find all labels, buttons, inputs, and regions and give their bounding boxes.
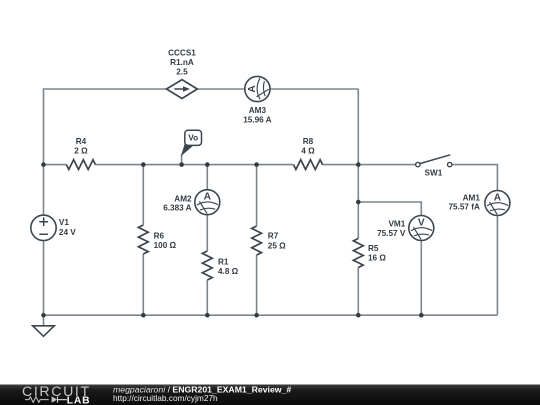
- svg-text:6.383 A: 6.383 A: [163, 204, 191, 213]
- footer logo resistor glyph: [25, 397, 49, 403]
- wire middle rail (R4 to R8): [95, 164, 293, 166]
- wire switch to AM1 top: [452, 165, 498, 191]
- resistor R5: [353, 239, 386, 268]
- svg-text:AM3: AM3: [249, 106, 267, 115]
- resistor R8: [294, 137, 323, 170]
- wire left rail lower (V1 bottom to ground node): [43, 241, 45, 316]
- wire right branch vertical (top rail down to bottom rail, through R5): [357, 89, 359, 315]
- svg-text:R6: R6: [154, 232, 165, 241]
- node VM1 bottom: [419, 313, 424, 318]
- svg-text:R5: R5: [368, 244, 379, 253]
- svg-text:2.5: 2.5: [176, 68, 188, 77]
- svg-text:A: A: [204, 192, 212, 203]
- resistor R4: [66, 137, 95, 170]
- ammeter AM3: [243, 76, 271, 124]
- svg-text:75.57 fA: 75.57 fA: [448, 203, 479, 212]
- svg-text:4.8 Ω: 4.8 Ω: [218, 267, 239, 276]
- resistor R7: [252, 226, 286, 255]
- wire AM2 / R1 branch: [206, 165, 208, 316]
- wire AM1 bottom to bottom rail: [496, 216, 498, 316]
- node R5 top: [356, 162, 361, 167]
- wire R6 branch: [142, 165, 144, 316]
- node VM1 tap: [356, 200, 361, 205]
- svg-text:AM1: AM1: [463, 194, 481, 203]
- node R6 top: [141, 162, 146, 167]
- svg-text:75.57 V: 75.57 V: [377, 229, 406, 238]
- wire Vo tap: [181, 154, 183, 165]
- resistor R1: [202, 251, 238, 280]
- ammeter AM1: [448, 191, 509, 216]
- resistor R6: [138, 225, 176, 254]
- svg-text:4 Ω: 4 Ω: [301, 147, 315, 156]
- node R7 bottom: [254, 313, 259, 318]
- node R6 bottom: [141, 313, 146, 318]
- footer logo diode glyph: [52, 396, 58, 402]
- footer bar: [0, 385, 540, 405]
- svg-text:2 Ω: 2 Ω: [74, 147, 88, 156]
- wire bottom rail: [44, 314, 498, 316]
- node R1 bottom: [205, 313, 210, 318]
- switch SW1: [416, 155, 452, 178]
- wire VM1 branch upper: [358, 202, 421, 216]
- svg-text:15.96 A: 15.96 A: [243, 115, 271, 124]
- svg-text:SW1: SW1: [425, 169, 443, 178]
- svg-text:100 Ω: 100 Ω: [154, 241, 177, 250]
- voltage source V1: [31, 215, 76, 240]
- svg-text:AM2: AM2: [174, 194, 192, 203]
- node label Vo flag: [182, 130, 202, 155]
- wire R7 branch: [256, 165, 258, 316]
- node junction dots: [41, 162, 423, 317]
- svg-text:24 V: 24 V: [59, 228, 76, 237]
- node middle-left: [41, 162, 46, 167]
- svg-text:A: A: [247, 85, 258, 93]
- svg-text:R4: R4: [76, 137, 87, 146]
- wire left rail upper (top corner to V1 top): [44, 89, 167, 215]
- svg-text:CCCS1: CCCS1: [168, 49, 196, 58]
- svg-text:VM1: VM1: [388, 220, 405, 229]
- svg-text:V: V: [418, 217, 425, 228]
- node R5 bottom: [356, 313, 361, 318]
- wire middle rail (R8 to switch SW1): [323, 164, 416, 166]
- wire middle rail (left rail to R4): [44, 164, 67, 166]
- ammeter AM2: [163, 190, 220, 215]
- ground: [33, 315, 55, 336]
- svg-text:R7: R7: [268, 232, 279, 241]
- svg-text:V1: V1: [59, 218, 69, 227]
- svg-text:A: A: [494, 192, 502, 203]
- CCCS1 current-controlled current source: [167, 49, 198, 99]
- svg-text:16 Ω: 16 Ω: [368, 254, 386, 263]
- svg-text:http://circuitlab.com/cyjm27h: http://circuitlab.com/cyjm27h: [113, 393, 218, 403]
- node AM2 top: [205, 162, 210, 167]
- wire top rail right (CCCS1 to AM3 to down branch): [197, 88, 358, 90]
- svg-text:R1: R1: [218, 258, 229, 267]
- svg-text:Vo: Vo: [188, 134, 198, 143]
- node Vo tap: [179, 162, 184, 167]
- node R7 top: [254, 162, 259, 167]
- node ground: [41, 313, 46, 318]
- svg-text:LAB: LAB: [67, 396, 91, 405]
- svg-text:R1.nA: R1.nA: [170, 58, 194, 67]
- svg-text:25 Ω: 25 Ω: [268, 241, 286, 250]
- wire VM1 branch lower: [420, 240, 422, 315]
- svg-text:R8: R8: [303, 137, 314, 146]
- voltmeter VM1: [377, 216, 434, 241]
